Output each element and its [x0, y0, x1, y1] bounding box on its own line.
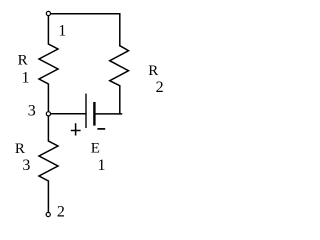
svg-text:E: E [91, 141, 100, 157]
svg-text:R: R [148, 63, 158, 79]
svg-text:R: R [18, 53, 28, 69]
svg-text:2: 2 [156, 79, 164, 96]
svg-text:1: 1 [22, 70, 30, 87]
svg-text:3: 3 [22, 157, 30, 174]
svg-text:2: 2 [57, 204, 65, 221]
svg-text:1: 1 [58, 23, 66, 40]
svg-text:1: 1 [98, 157, 106, 174]
svg-text:R: R [15, 141, 25, 157]
svg-text:3: 3 [28, 102, 36, 119]
